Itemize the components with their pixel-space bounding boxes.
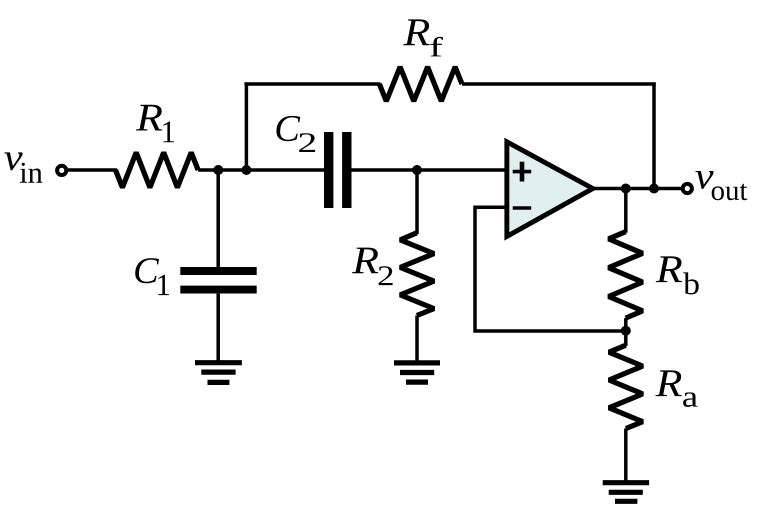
label R2: 2 subscript bbox=[379, 266, 393, 285]
resistor R2 bbox=[400, 233, 434, 316]
wire Ra to ground bbox=[624, 429, 628, 483]
label Rf: R bbox=[403, 19, 429, 45]
node D junction dot (output/Rb tap) bbox=[621, 184, 631, 194]
terminal vout open circle bbox=[683, 184, 692, 193]
capacitor C2 right plate bbox=[342, 132, 351, 208]
node B junction dot (feedback riser tap) bbox=[241, 165, 251, 175]
wire C1 to ground bbox=[216, 294, 220, 363]
wire input from vin terminal to R1 bbox=[68, 168, 117, 172]
label vin: in subscript bbox=[20, 163, 42, 183]
node E junction dot (feedback drop/output) bbox=[649, 184, 659, 194]
op-amp U1 triangle bbox=[507, 142, 593, 237]
resistor Rb bbox=[609, 232, 643, 318]
resistor Ra bbox=[609, 345, 643, 428]
wire top run left of Rf bbox=[244, 82, 380, 86]
label C1: C bbox=[135, 258, 159, 283]
wire Rb to node F bbox=[624, 318, 628, 346]
label vout: v bbox=[695, 171, 713, 189]
label C1: 1 subscript bbox=[158, 275, 169, 295]
wire R1 to C2 bbox=[198, 168, 325, 172]
label Ra: R bbox=[655, 370, 681, 396]
ground (below R2) bbox=[394, 363, 440, 382]
wire feedback riser up bbox=[245, 82, 249, 171]
wire R2 branch down bbox=[415, 170, 419, 234]
capacitor C1 bottom plate bbox=[180, 286, 256, 294]
ground (below Ra) bbox=[603, 483, 649, 502]
resistor Rf bbox=[379, 67, 462, 101]
wire C2 to op-amp noninverting input bbox=[352, 168, 508, 172]
label C2: 2 subscript bbox=[299, 133, 315, 152]
label Ra: a subscript bbox=[683, 392, 697, 407]
wire output node down to Rb bbox=[624, 189, 628, 233]
label R1: 1 subscript bbox=[163, 121, 174, 142]
wire C1 branch down bbox=[216, 170, 220, 267]
wire inverting feedback: left, down, right to Rb/Ra node bbox=[475, 207, 626, 331]
wire top run right of Rf bbox=[462, 82, 656, 86]
node F junction dot (Rb/Ra/inverting feedback) bbox=[621, 326, 631, 336]
capacitor C1 top plate bbox=[180, 267, 256, 275]
label Rb: b subscript bbox=[683, 272, 699, 294]
label vin: v bbox=[4, 152, 22, 170]
node C junction dot (C2/R2 tap) bbox=[412, 165, 422, 175]
node A junction dot (R1/C1 tap) bbox=[213, 165, 223, 175]
wire output from op-amp tip to vout bbox=[593, 187, 683, 191]
ground (below C1) bbox=[195, 363, 242, 383]
op-amp minus sign bbox=[513, 206, 532, 210]
resistor R1 bbox=[116, 152, 199, 187]
wire feedback drop to output node bbox=[652, 82, 656, 188]
label Rb: R bbox=[656, 256, 682, 282]
label C2: C bbox=[276, 116, 300, 141]
capacitor C2 left plate bbox=[324, 132, 333, 208]
label R2: R bbox=[352, 248, 378, 274]
terminal vin open circle bbox=[57, 166, 66, 175]
label Rf: f subscript bbox=[430, 37, 443, 57]
label R1: R bbox=[136, 105, 162, 131]
label vout: out subscript bbox=[712, 184, 748, 200]
op-amp plus sign bbox=[513, 162, 532, 182]
wire R2 to ground bbox=[415, 316, 419, 363]
